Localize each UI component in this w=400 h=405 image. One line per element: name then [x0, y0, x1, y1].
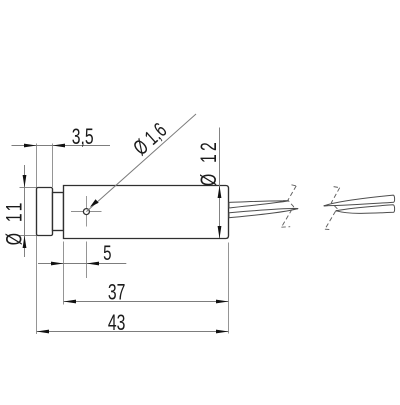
- leader arrowhead at aperture: [90, 199, 99, 207]
- arrow 37 left (tip x=63.5 pointing left): [64, 300, 77, 304]
- arrow 43 right (tip x=228.5 pointing right): [216, 330, 229, 334]
- svg-text:Ø 12: Ø 12: [196, 139, 221, 186]
- svg-text:37: 37: [108, 280, 126, 305]
- arrow dia12 bottom (tip y=238.5 pointing down): [218, 226, 222, 239]
- main housing body dia 12: [64, 186, 229, 239]
- svg-text:43: 43: [108, 310, 126, 335]
- arrow dia11 bottom (tip y=235.5 pointing up): [23, 236, 27, 249]
- wire tip accent lower-right: [336, 210, 341, 212]
- dimension line dia 11 vertical: [24, 165, 26, 257]
- crosshair centerline horizontal: [71, 211, 102, 213]
- arrow 43 left (tip x=36.5 pointing left): [37, 330, 50, 334]
- dimension line 5: [38, 263, 126, 265]
- svg-text:Ø 11: Ø 11: [2, 199, 27, 245]
- break symbol 1 dashed zigzag: [281, 185, 296, 227]
- dimension line 37: [64, 301, 229, 303]
- extension tick top for dia 11: [20, 187, 37, 189]
- extension line at body left edge x=63.5: [63, 242, 65, 305]
- extension line at body right edge x=228.5: [228, 243, 230, 334]
- svg-text:3,5: 3,5: [72, 124, 94, 149]
- cap front ring dia 11: [37, 188, 53, 236]
- wire tip accent upper-left: [284, 200, 289, 202]
- extension line at cap right edge x=52.5: [52, 144, 54, 188]
- dimension line 3,5: [12, 145, 111, 147]
- arrow dia12 top (tip y=185.5 pointing up): [218, 186, 222, 199]
- arrow 3,5 right (tip x=52.5 pointing left): [53, 144, 66, 148]
- wire lower right stub: [336, 205, 395, 214]
- svg-text:5: 5: [103, 240, 111, 264]
- arrow dia11 top (tip y=187.5 pointing down): [23, 175, 27, 188]
- arrow 3,5 left (tip x=36.5 pointing right): [24, 144, 37, 148]
- extension line at aperture center x=86.5: [86, 242, 88, 279]
- wire upper left stub: [229, 201, 289, 208]
- extension tick bottom for dia 11: [20, 235, 37, 237]
- arrow 37 right (tip x=228.5 pointing right): [216, 300, 229, 304]
- arrow 5 right (tip x=86.5 pointing left): [87, 262, 100, 266]
- dimension line dia 12 vertical: [219, 128, 221, 239]
- crosshair centerline vertical: [86, 196, 88, 227]
- leader line for dia 1,6: [86, 114, 196, 212]
- extension line at front face x=36.5: [36, 144, 38, 335]
- wire tip accent lower-left: [293, 208, 298, 210]
- break symbol 2 dashed zigzag: [325, 187, 340, 230]
- dimension line 43: [37, 331, 229, 333]
- aperture circle dia 1,6: [83, 209, 89, 215]
- step collar: [53, 193, 64, 231]
- wire upper right stub: [324, 195, 395, 206]
- arrow 5 left (tip x=63.5 pointing right): [51, 262, 64, 266]
- wire tip accent upper-right: [324, 204, 329, 207]
- wire lower left stub: [229, 209, 298, 218]
